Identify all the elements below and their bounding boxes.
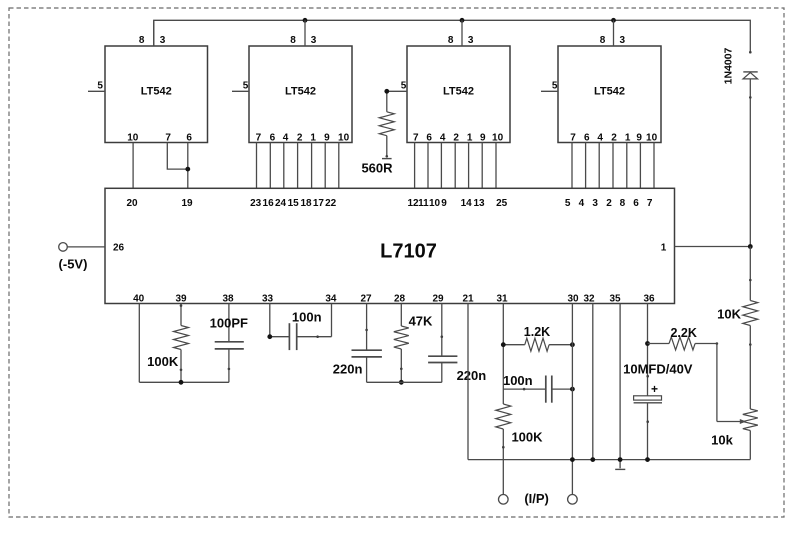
terminal I/P left	[499, 495, 509, 505]
svg-text:3: 3	[620, 35, 626, 46]
svg-text:7: 7	[256, 133, 262, 144]
wire: display 2 pin 5 stub	[232, 90, 249, 92]
svg-text:32: 32	[583, 293, 595, 304]
svg-text:30: 30	[567, 293, 579, 304]
wire: rail to display 2 pin 8/3	[304, 20, 306, 46]
diode D1 1N4007	[723, 47, 758, 246]
junction 100n/pin30	[570, 387, 575, 392]
svg-text:18: 18	[300, 198, 312, 209]
svg-text:4: 4	[283, 133, 289, 144]
svg-text:1: 1	[661, 242, 667, 253]
display U4 LT542	[401, 35, 510, 144]
svg-text:220n: 220n	[333, 362, 363, 377]
svg-text:5: 5	[243, 81, 249, 92]
junction on rail above display 4	[611, 18, 616, 23]
svg-text:10: 10	[646, 133, 658, 144]
wire: rail to display 4 pin 8/3	[613, 20, 615, 46]
wire: rail to display 3 pin 8/3	[461, 20, 463, 46]
svg-text:1: 1	[625, 133, 631, 144]
svg-text:3: 3	[592, 198, 598, 209]
svg-text:6: 6	[633, 198, 639, 209]
capacitor 100n (pins 33-34)	[270, 304, 332, 351]
svg-text:11: 11	[418, 198, 429, 209]
svg-text:10: 10	[338, 133, 350, 144]
svg-text:22: 22	[325, 198, 337, 209]
resistor 47K (pin 28)	[394, 304, 433, 383]
svg-text:5: 5	[97, 81, 103, 92]
wire: pin 1 to diode cathode line	[675, 246, 751, 248]
svg-text:100n: 100n	[292, 310, 322, 325]
wires: display 2 segment pins to L7107 (23 16 24 15 18 17 22)	[257, 143, 339, 189]
svg-text:33: 33	[262, 293, 274, 304]
terminal I/P right	[568, 495, 578, 505]
svg-text:(-5V): (-5V)	[59, 257, 88, 272]
IC U1 L7107	[105, 188, 675, 304]
svg-text:6: 6	[584, 133, 590, 144]
svg-text:10: 10	[429, 198, 441, 209]
svg-text:20: 20	[126, 198, 138, 209]
display U5 LT542	[552, 35, 661, 144]
svg-text:40: 40	[133, 293, 145, 304]
svg-text:28: 28	[394, 293, 406, 304]
junction pin36/2.2K	[645, 341, 650, 346]
svg-text:9: 9	[441, 198, 447, 209]
capacitor 220n (pin 29)	[428, 304, 486, 384]
junction pin1/diode	[748, 244, 753, 249]
svg-text:17: 17	[313, 198, 325, 209]
resistor 560R	[361, 91, 394, 175]
wire: pin 32 down	[590, 304, 595, 463]
svg-text:25: 25	[496, 198, 508, 209]
junction display1 pins 7/6	[185, 167, 190, 172]
svg-text:1: 1	[310, 133, 316, 144]
wire: display 1 pin 6 to L7107 pin 19	[187, 143, 189, 189]
svg-text:2: 2	[297, 133, 303, 144]
wire: pin 40 down	[138, 304, 140, 383]
svg-text:LT542: LT542	[141, 86, 172, 98]
svg-text:21: 21	[462, 293, 474, 304]
wire: pin 36 down	[647, 304, 649, 396]
resistor 100K (pin 31 lower)	[496, 404, 543, 495]
svg-text:39: 39	[175, 293, 187, 304]
svg-text:9: 9	[480, 133, 486, 144]
svg-text:29: 29	[432, 293, 444, 304]
svg-text:+: +	[651, 382, 658, 396]
svg-text:10k: 10k	[711, 432, 733, 447]
svg-text:1: 1	[467, 133, 473, 144]
capacitor 100n (pins 31-30)	[503, 373, 572, 403]
svg-text:(I/P): (I/P)	[524, 491, 549, 506]
junction 1.2K/pin30	[570, 342, 575, 347]
wire: pin 21 down to common bus	[467, 304, 469, 460]
junction 560R / display3 pin5	[384, 89, 389, 94]
svg-text:31: 31	[496, 293, 508, 304]
junction pin36 bus	[645, 457, 650, 462]
svg-text:3: 3	[160, 35, 166, 46]
svg-text:47K: 47K	[409, 314, 433, 329]
svg-text:3: 3	[311, 35, 317, 46]
svg-text:2: 2	[611, 133, 617, 144]
svg-text:27: 27	[360, 293, 372, 304]
capacitor 100PF (pin 38)	[210, 304, 248, 383]
svg-text:1.2K: 1.2K	[524, 325, 550, 339]
svg-text:4: 4	[579, 198, 585, 209]
svg-text:15: 15	[288, 198, 300, 209]
svg-text:LT542: LT542	[443, 86, 474, 98]
svg-text:1N4007: 1N4007	[723, 47, 735, 84]
wire: 2.2K to pot wiper	[716, 344, 718, 422]
svg-text:10MFD/40V: 10MFD/40V	[623, 362, 693, 377]
svg-text:4: 4	[440, 133, 446, 144]
svg-text:23: 23	[250, 198, 262, 209]
junction pin39 bus	[179, 380, 184, 385]
svg-text:220n: 220n	[457, 368, 487, 383]
wire: top supply rail	[154, 20, 751, 52]
wire: bus pins 27-28-29	[367, 381, 442, 383]
svg-text:19: 19	[181, 198, 193, 209]
resistor 100K (pin 39)	[147, 304, 188, 383]
wire: display 1 pin 5 stub	[88, 90, 105, 92]
svg-text:6: 6	[426, 133, 432, 144]
wire: rail to display 1 pin 8/3	[153, 20, 155, 46]
svg-text:24: 24	[275, 198, 287, 209]
potentiometer 10k	[711, 409, 758, 460]
svg-text:35: 35	[609, 293, 621, 304]
wire: display 4 pin 5 stub	[541, 90, 558, 92]
svg-text:560R: 560R	[361, 161, 393, 176]
svg-text:34: 34	[325, 293, 337, 304]
svg-text:2: 2	[453, 133, 459, 144]
capacitor 220n (pin 27)	[333, 304, 382, 383]
label (I/P)	[524, 491, 549, 506]
svg-text:L7107: L7107	[380, 241, 437, 263]
wire: display 1 pin 10 to L7107 pin 20	[132, 143, 134, 189]
wire: display 1 pin 7 jog	[167, 143, 188, 170]
terminal (-5V)	[59, 243, 88, 272]
wire: bus pins 40-39-38	[139, 381, 229, 383]
svg-text:100PF: 100PF	[210, 316, 248, 331]
svg-text:26: 26	[113, 243, 125, 254]
svg-text:LT542: LT542	[594, 86, 625, 98]
junction pin28 bus	[399, 380, 404, 385]
svg-text:LT542: LT542	[285, 86, 316, 98]
svg-text:7: 7	[570, 133, 576, 144]
svg-text:9: 9	[636, 133, 642, 144]
svg-text:14: 14	[461, 198, 473, 209]
junction on rail above display 3	[460, 18, 465, 23]
capacitor 10MFD/40V electrolytic	[623, 362, 693, 460]
svg-text:16: 16	[263, 198, 275, 209]
wire: common bottom bus	[468, 459, 750, 461]
svg-text:10: 10	[127, 133, 139, 144]
svg-text:36: 36	[643, 293, 655, 304]
resistor 10K	[717, 247, 758, 410]
display U3 LT542	[243, 35, 352, 144]
wires: display 4 segment pins to L7107 (5 4 3 2 8 6 7)	[572, 143, 654, 189]
wire: -5V to pin 26	[67, 246, 105, 248]
junction pin33	[267, 334, 272, 339]
resistor 2.2K	[648, 326, 719, 350]
svg-text:6: 6	[270, 133, 276, 144]
svg-text:100n: 100n	[503, 373, 533, 388]
svg-text:7: 7	[165, 133, 171, 144]
junction on rail above display 2	[303, 18, 308, 23]
svg-text:38: 38	[222, 293, 234, 304]
svg-text:8: 8	[139, 35, 145, 46]
svg-text:10K: 10K	[717, 306, 741, 321]
svg-text:100K: 100K	[147, 354, 179, 369]
wire: pin 31 down	[502, 304, 504, 405]
svg-text:8: 8	[290, 35, 296, 46]
svg-text:8: 8	[448, 35, 454, 46]
svg-text:13: 13	[473, 198, 485, 209]
svg-text:7: 7	[413, 133, 419, 144]
display U2 LT542	[97, 35, 207, 144]
svg-text:2: 2	[606, 198, 612, 209]
wires: display 3 segment pins to L7107 (12 11 10 9 14 13 25)	[415, 143, 496, 189]
svg-text:5: 5	[552, 81, 558, 92]
svg-text:8: 8	[620, 198, 626, 209]
svg-text:3: 3	[468, 35, 474, 46]
svg-text:10: 10	[492, 133, 504, 144]
wire: pin 35 down + common terminal	[615, 304, 625, 470]
svg-text:6: 6	[186, 133, 192, 144]
svg-text:5: 5	[401, 81, 407, 92]
svg-text:9: 9	[324, 133, 330, 144]
resistor 1.2K	[503, 325, 572, 351]
wire: display 3 pin 5 stub	[387, 90, 407, 92]
svg-text:4: 4	[597, 133, 603, 144]
wire: pin 30 down	[571, 304, 573, 495]
svg-text:2.2K: 2.2K	[670, 326, 696, 340]
junction pin30 bus	[570, 457, 575, 462]
svg-text:5: 5	[565, 198, 571, 209]
svg-text:100K: 100K	[511, 429, 543, 444]
svg-text:7: 7	[647, 198, 653, 209]
junction 1.2K/pin31	[501, 342, 506, 347]
svg-text:8: 8	[600, 35, 606, 46]
